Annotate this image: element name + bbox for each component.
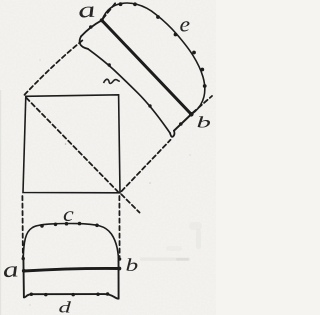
foot at b end of base	[170, 131, 174, 137]
projection dashed BR corner to b-side	[122, 140, 171, 191]
paper speckles	[30, 60, 191, 306]
svg-text:e: e	[180, 12, 191, 36]
dash beyond b	[193, 96, 212, 113]
dot at a junction	[100, 18, 104, 22]
thick springing line a-b	[102, 20, 192, 114]
svg-text:a: a	[1, 257, 20, 282]
arch curve c	[23, 224, 118, 258]
label f	[104, 79, 120, 83]
side at b	[174, 115, 191, 131]
side at a	[81, 20, 102, 36]
svg-text:c: c	[63, 202, 74, 225]
dash beyond a	[103, 1, 117, 19]
dots on f base	[108, 63, 111, 66]
left side	[22, 258, 25, 297]
svg-text:b: b	[197, 114, 211, 132]
paper noise	[0, 0, 216, 315]
square diagonal (dashed)	[26, 98, 119, 194]
dots on d base	[30, 293, 34, 297]
dashed vertical left (square to arch)	[21, 196, 24, 257]
right side	[118, 258, 120, 299]
projection dashed TL corner to a	[25, 40, 84, 95]
foot at a	[80, 36, 88, 49]
dots on e curve	[119, 2, 123, 6]
scan edge shade left	[0, 90, 1, 315]
svg-text:b: b	[126, 256, 139, 275]
dots at arch springs (bottom)	[22, 257, 25, 260]
dot at b junction	[189, 112, 194, 117]
dashed vertical right (square to arch)	[118, 196, 120, 257]
dots on c curve	[40, 224, 44, 228]
thick springing line a-b	[24, 268, 120, 271]
paper background	[0, 0, 216, 315]
faint smudges	[140, 258, 190, 261]
dots at ends of bottom a-b line	[22, 269, 26, 273]
svg-text:d: d	[59, 298, 72, 315]
dot on b-side	[179, 122, 183, 126]
arch curve e	[102, 3, 205, 114]
svg-text:a: a	[76, 0, 98, 23]
base line d with feet	[24, 294, 119, 299]
diagonal extension beyond corner	[121, 194, 139, 212]
base line f	[88, 49, 170, 133]
square plan	[23, 95, 120, 193]
dot on a-side	[89, 25, 93, 29]
